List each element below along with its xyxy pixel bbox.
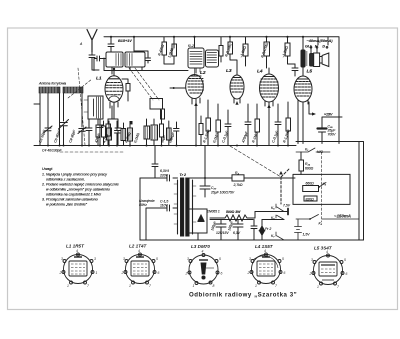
resistor R3 grid <box>122 79 130 101</box>
capacitor C25 electrolytic <box>318 129 327 144</box>
svg-text:660Ω: 660Ω <box>306 182 315 186</box>
capacitor C8 <box>115 124 121 146</box>
svg-text:6: 6 <box>158 271 160 275</box>
wire right vertical from bus <box>338 37 340 144</box>
tube L1 <box>105 68 123 119</box>
svg-text:w odbiorniku „zerowym” przy us: w odbiorniku „zerowym” przy ustawieniu <box>46 188 110 192</box>
dashed switch link diagonal <box>230 146 281 177</box>
svg-text:7: 7 <box>337 285 339 289</box>
svg-text:5: 5 <box>219 257 221 261</box>
resistor R5b <box>161 109 165 119</box>
IF transformer can f1 right <box>125 37 145 71</box>
capacitor C13 <box>174 122 180 146</box>
svg-text:6,3V: 6,3V <box>233 231 241 235</box>
wire ground bus power <box>140 239 364 241</box>
capacitor C21 <box>275 104 281 146</box>
svg-text:Tr 2: Tr 2 <box>180 173 187 177</box>
capacitor C9 trimmer <box>78 127 86 146</box>
IF transformer can f1b <box>206 50 219 67</box>
svg-text:3: 3 <box>61 257 63 261</box>
svg-text:5: 5 <box>344 258 346 262</box>
wire K3 line <box>296 215 359 220</box>
wire transformer primary left <box>140 175 178 181</box>
svg-text:500Ω 3W: 500Ω 3W <box>226 210 241 214</box>
svg-text:L3: L3 <box>226 68 232 74</box>
wire L2 grid feed <box>170 87 186 89</box>
resistor R7 <box>228 37 237 70</box>
svg-text:1: 1 <box>193 284 195 288</box>
wire +B top bus <box>104 36 339 38</box>
battery GB2 1.5V <box>295 220 302 241</box>
svg-text:~40mA(50mA): ~40mA(50mA) <box>307 38 334 43</box>
svg-text:2: 2 <box>247 271 250 275</box>
svg-text:L1 1R5T: L1 1R5T <box>66 244 85 249</box>
resistor R10 <box>285 37 295 64</box>
svg-text:25μF 100/175V: 25μF 100/175V <box>210 191 235 195</box>
svg-text:C₂₀: C₂₀ <box>211 186 217 190</box>
svg-text:1,5V: 1,5V <box>303 233 311 237</box>
ferrite antenna coil La1 <box>39 87 60 93</box>
svg-text:odbiornika na częstotliwość 1: odbiornika na częstotliwość 1 MHz <box>46 193 101 197</box>
wire antenna down to coil <box>92 62 99 70</box>
tube socket L3 DM70 <box>188 254 219 285</box>
wire K1 line <box>296 148 330 152</box>
svg-text:L2 1T4T: L2 1T4T <box>129 244 148 249</box>
svg-text:2,7kΩ: 2,7kΩ <box>233 183 243 187</box>
svg-text:C4 40/130pF: C4 40/130pF <box>42 149 63 153</box>
svg-text:R₄: R₄ <box>235 171 239 175</box>
svg-text:7: 7 <box>275 284 277 288</box>
socket labels <box>66 244 333 251</box>
wire L2 bottom arrow <box>194 99 197 146</box>
socket pin numbers <box>59 249 348 289</box>
svg-text:w położeniu „fale średnie”: w położeniu „fale średnie” <box>46 203 88 207</box>
svg-text:1: 1 <box>96 271 98 275</box>
tube socket L1 <box>62 253 94 284</box>
wire L5 screen drop <box>309 102 316 116</box>
resistor R11 <box>206 100 211 146</box>
svg-text:4: 4 <box>326 250 328 254</box>
svg-text:N/O: N/O <box>317 150 323 154</box>
resistor R6 top <box>172 37 177 64</box>
capacitor C10b <box>97 119 103 146</box>
svg-text:Antena ferrytowa: Antena ferrytowa <box>38 82 66 86</box>
svg-text:2: 2 <box>185 272 188 276</box>
svg-text:3: 3 <box>249 257 251 261</box>
svg-text:Pr 2: Pr 2 <box>265 227 271 231</box>
resistor R9 <box>264 37 270 68</box>
resistor R14 <box>286 102 291 146</box>
svg-text:4: 4 <box>264 249 266 253</box>
svg-text:3. Przełącznik zakresów ustawi: 3. Przełącznik zakresów ustawiono <box>42 198 98 202</box>
osc coil L onda <box>107 121 112 146</box>
tuning capacitor C6 variable <box>59 120 69 146</box>
capacitor C19 <box>245 104 251 146</box>
wire left drop to 178 <box>204 146 206 180</box>
resistor R7b <box>219 37 223 62</box>
tube L2 <box>186 68 204 104</box>
dashed switch gang line <box>321 152 323 222</box>
capacitor antenna coupling <box>89 52 95 62</box>
capacitor C18 <box>225 110 231 146</box>
svg-text:K₁: K₁ <box>305 148 308 152</box>
svg-text:1: 1 <box>67 284 69 288</box>
capacitor C top left <box>108 44 114 52</box>
resistor R1 <box>106 119 111 146</box>
ferrite antenna coil La2 <box>63 87 83 93</box>
capacitor C28 <box>251 220 257 241</box>
svg-text:K₆: K₆ <box>271 216 275 220</box>
dashed AVC diagonal 2 <box>135 68 159 100</box>
wire L1 cathode drop <box>108 106 118 124</box>
IF transformer can f1 left <box>94 52 123 71</box>
svg-text:1: 1 <box>255 284 257 288</box>
resistor R2 top <box>162 37 174 64</box>
svg-text:6: 6 <box>346 272 348 276</box>
svg-text:4: 4 <box>76 249 78 253</box>
text labels schematic <box>38 38 351 238</box>
svg-text:f1-2: f1-2 <box>188 44 194 48</box>
wire IF link bus y70.5 <box>104 58 188 74</box>
svg-text:5: 5 <box>156 257 158 261</box>
switch loop outer <box>296 142 364 241</box>
notes Uwagi block <box>41 167 119 207</box>
wire rail 7V <box>210 212 288 220</box>
svg-text:3: 3 <box>123 257 125 261</box>
wire RF ground bus <box>34 145 296 147</box>
svg-text:110V: 110V <box>160 204 168 208</box>
IF coil pair Lf2b <box>151 119 158 146</box>
rectifier loop <box>188 209 207 240</box>
capacitor C27 electrolytic <box>233 220 243 241</box>
svg-text:700V: 700V <box>328 133 337 137</box>
oscillator coil box <box>84 96 103 119</box>
resistor R1b <box>102 121 106 146</box>
svg-text:7,5V: 7,5V <box>283 204 291 208</box>
IF transformer can f1a <box>188 48 204 76</box>
diode Pr2 double <box>259 220 264 241</box>
svg-text:L5: L5 <box>307 69 313 75</box>
svg-text:1: 1 <box>129 284 131 288</box>
mid section horizontal wire y178 <box>188 177 295 179</box>
capacitor C10 <box>115 121 121 146</box>
svg-text:1: 1 <box>317 285 319 289</box>
resistor R25 660 <box>303 186 319 192</box>
svg-text:1. Napięcia i prądy zmierzono: 1. Napięcia i prądy zmierzono przy pracy <box>42 173 107 177</box>
resistor R26 820 <box>304 196 317 201</box>
svg-text:6: 6 <box>284 271 286 275</box>
switch loop inner <box>293 174 350 204</box>
svg-text:3: 3 <box>94 257 96 261</box>
svg-text:B15+1V: B15+1V <box>118 39 132 43</box>
svg-text:~150mA: ~150mA <box>334 214 351 219</box>
wire mains plug <box>139 178 141 240</box>
svg-text:odbiornika z zasilaczem.: odbiornika z zasilaczem. <box>46 178 85 182</box>
antenna A <box>87 30 97 53</box>
capacitor C17 <box>292 64 298 76</box>
tube socket L4 <box>250 253 282 284</box>
trimmer capacitor C1 <box>44 126 52 146</box>
svg-text:6,3V4: 6,3V4 <box>160 169 169 173</box>
svg-text:1N065 1: 1N065 1 <box>207 210 220 214</box>
svg-text:L2: L2 <box>200 70 206 76</box>
svg-text:2: 2 <box>121 271 124 275</box>
resistor R4 <box>232 175 244 181</box>
switch K4 <box>279 168 290 204</box>
dashed gang link <box>60 151 125 153</box>
capacitor C20 electrolytic <box>200 178 210 197</box>
resistor R8 <box>243 37 248 66</box>
svg-text:3: 3 <box>311 258 313 262</box>
svg-text:2: 2 <box>309 272 312 276</box>
resistor R12 <box>216 104 221 146</box>
dashed AVC diagonal 1 <box>129 68 153 100</box>
svg-text:L4 1S5T: L4 1S5T <box>255 244 274 249</box>
capacitor C11 <box>134 51 151 63</box>
output transformer Tr1 <box>301 48 307 70</box>
tube socket L5 <box>312 254 344 285</box>
svg-text:L3 DM70: L3 DM70 <box>191 244 210 249</box>
power transformer Tr2 <box>174 178 196 236</box>
coil L bfo <box>167 121 172 146</box>
svg-text:Gł.1 N D: Gł.1 N D <box>305 45 325 49</box>
svg-text:600Ω: 600Ω <box>305 167 314 171</box>
wire C25 feed <box>322 117 342 128</box>
switch K2 <box>318 183 326 188</box>
wire mains drop left <box>139 218 141 240</box>
svg-text:K₅: K₅ <box>271 206 275 210</box>
wire mains secondary <box>146 205 178 240</box>
resistor R5 <box>160 110 164 146</box>
switch ladder K5 K6 K7 <box>276 204 288 240</box>
tube socket L2 <box>124 253 156 284</box>
svg-text:2. Podane wartości napięć zmie: 2. Podane wartości napięć zmierzono stat… <box>41 183 119 187</box>
svg-text:820Ω: 820Ω <box>306 197 315 201</box>
svg-text:L1: L1 <box>96 76 102 82</box>
svg-text:≈15V: ≈15V <box>324 113 333 117</box>
svg-text:5: 5 <box>282 257 284 261</box>
svg-text:6: 6 <box>221 272 223 276</box>
svg-text:3: 3 <box>187 257 189 261</box>
tube L5 <box>294 70 312 144</box>
svg-text:220V: 220V <box>159 174 169 178</box>
diode D1 <box>198 215 204 222</box>
wire coil risers <box>48 93 82 146</box>
dashed gang diagonal left <box>68 68 92 145</box>
svg-text:4: 4 <box>202 250 204 254</box>
resistor R8a below L2 <box>199 116 203 146</box>
svg-text:125/15V: 125/15V <box>216 231 229 235</box>
svg-text:L5 3S4T: L5 3S4T <box>314 246 333 251</box>
svg-text:4: 4 <box>138 249 140 253</box>
svg-text:R₂₄: R₂₄ <box>305 162 311 166</box>
wire top bus drops <box>111 37 328 48</box>
svg-text:2: 2 <box>59 271 62 275</box>
resistor R13 <box>255 104 260 146</box>
svg-text:Odbiornik radiowy „Szarotka 3”: Odbiornik radiowy „Szarotka 3” <box>189 292 297 299</box>
node dots top bus <box>110 36 304 38</box>
svg-text:7: 7 <box>149 284 151 288</box>
svg-text:7: 7 <box>87 284 89 288</box>
resistor R1a <box>96 119 100 146</box>
wire speaker leads <box>310 47 328 54</box>
junction dot mid <box>130 121 133 124</box>
capacitor mains C a <box>152 146 158 178</box>
coil cluster La4 <box>128 122 133 146</box>
capacitor C osc 470pF <box>86 119 92 146</box>
svg-text:Uwagi:: Uwagi: <box>42 167 53 171</box>
tube L3 <box>230 70 244 105</box>
loudspeaker <box>310 53 329 67</box>
svg-text:L4: L4 <box>257 69 263 75</box>
IF core box <box>150 99 163 110</box>
coil cluster La3 <box>121 123 126 146</box>
svg-text:50Hz: 50Hz <box>139 203 147 207</box>
resistor R24 600 <box>299 152 304 174</box>
node dots RF bus <box>47 145 289 147</box>
IF coil pair Lf2a <box>144 119 150 146</box>
resistor 500ohm zigzag <box>210 212 255 222</box>
tube L4 <box>260 68 279 146</box>
svg-text:8: 8 <box>213 284 215 288</box>
capacitor C26 electrolytic <box>216 220 226 241</box>
wire ground bus left riser <box>34 93 40 146</box>
caption title <box>189 292 297 299</box>
